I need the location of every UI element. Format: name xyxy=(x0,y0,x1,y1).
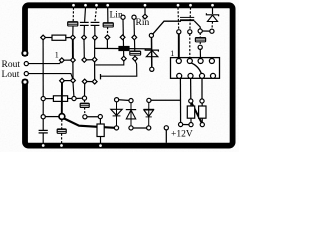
pad node top-left xyxy=(41,35,46,40)
wire D3 top link xyxy=(119,99,129,102)
wire bus to C2 xyxy=(84,8,87,22)
pin U2 top 4 xyxy=(209,59,214,64)
wire node43 to C8 xyxy=(42,119,44,130)
label 1 (IC1 pin1) xyxy=(55,50,59,59)
pad Lout xyxy=(24,72,28,76)
wire D4-D5 bottom link xyxy=(133,127,147,129)
label Lout xyxy=(2,70,20,80)
wire C4 to pad xyxy=(107,27,109,35)
svg-text:Rin: Rin xyxy=(136,18,150,28)
capacitor C9 xyxy=(80,103,89,108)
wire C3 down xyxy=(94,26,96,36)
wire bus drop col B xyxy=(189,8,192,30)
wire J1 to C10 xyxy=(61,120,63,129)
diode D1 zener xyxy=(145,49,158,57)
pin IC1-7 xyxy=(71,78,76,83)
pad on top bus 8 xyxy=(211,3,215,7)
wire U2 pin7 down xyxy=(201,78,203,99)
wire C2 down xyxy=(83,26,85,36)
label Rout xyxy=(2,60,21,70)
capacitor C4 xyxy=(103,23,114,28)
junction node J1 xyxy=(59,114,65,120)
wire Lout xyxy=(29,74,73,79)
pad D4 bottom xyxy=(129,126,133,130)
wire row31 C-D xyxy=(202,30,209,32)
wire C2-pad to IC1 pin3 xyxy=(83,39,85,58)
pad R4 bottom xyxy=(200,123,204,127)
pad D5 bottom xyxy=(147,126,151,130)
pad left-bus-lower-end xyxy=(22,79,27,84)
capacitor C6 horizontal plates xyxy=(180,17,194,20)
svg-text:1: 1 xyxy=(55,50,59,59)
pin IC1-5 xyxy=(92,79,97,84)
resistor R2 xyxy=(53,96,67,102)
wire bus drop diode D2 xyxy=(212,8,214,15)
capacitor C5 under rail xyxy=(130,51,141,55)
pin U2 bottom 4 xyxy=(211,73,216,78)
pad colB xyxy=(188,30,192,34)
pad R3 top xyxy=(189,99,193,103)
wire bus to C1 xyxy=(72,8,74,22)
pad node C4 xyxy=(105,35,110,40)
pad node43 low xyxy=(41,115,45,119)
capacitor C8 xyxy=(39,130,48,133)
wire pad to R5 xyxy=(99,119,101,124)
pad colD xyxy=(210,29,214,33)
wire +12V to bus xyxy=(165,130,167,143)
pad R4 top xyxy=(200,99,204,103)
diode D3 xyxy=(111,102,122,126)
ground bus left gap xyxy=(21,56,29,79)
pad on top bus 4 xyxy=(106,3,110,7)
pad R3 bottom xyxy=(189,123,193,127)
wire C10 to bus xyxy=(61,134,63,144)
wire IC1 row A 1-2 xyxy=(64,59,71,61)
resistor R5 xyxy=(97,124,104,137)
label Rin xyxy=(136,18,150,28)
wire bus to C4 xyxy=(107,8,109,23)
pad colC2 xyxy=(198,45,202,49)
wire across to diode row xyxy=(151,99,181,101)
pin IC1-1 xyxy=(59,58,64,63)
wire U2 pin to bottom pad xyxy=(179,78,181,124)
wire IC1-6 down xyxy=(84,84,86,96)
wire Rin S-bend xyxy=(152,21,181,34)
wire colC pad-cap xyxy=(199,33,201,37)
pad C9 top xyxy=(82,96,86,100)
svg-text:+12V: +12V xyxy=(171,130,193,140)
wire pad to R3 xyxy=(190,103,192,106)
pad on top bus 7 xyxy=(189,3,193,7)
wire bus stub Rin xyxy=(144,8,146,15)
wire C9 to pad xyxy=(84,108,86,115)
pad on bottom bus 1 xyxy=(41,144,45,148)
wire diag pad191-pad202 (thick) xyxy=(192,103,202,123)
capacitor C1 xyxy=(68,22,79,27)
pad node zener-top xyxy=(149,33,153,37)
wire C1 to pad xyxy=(72,26,74,35)
pin U2 bottom 2 xyxy=(188,73,193,78)
pin U2 bottom 3 xyxy=(200,73,205,78)
wire IC1 4-5 vertical xyxy=(94,62,96,80)
wire U2 internal arc xyxy=(190,63,201,75)
pad node C1-R2 xyxy=(70,35,75,40)
wire stub crossing xyxy=(100,74,102,79)
wire D2 to pad xyxy=(211,22,214,30)
wire mid1 elbow left xyxy=(95,61,123,65)
pad colC xyxy=(198,29,202,33)
wire colC to IC2 pin3 xyxy=(199,49,201,58)
pad left-bus-upper-end xyxy=(22,51,27,56)
pad on top bus 2 xyxy=(84,3,88,7)
wire R2-pad xyxy=(68,98,72,100)
wire C3-pad to IC1 pin4 xyxy=(94,40,96,58)
pad R2 right xyxy=(72,96,76,100)
wire pad-R2 xyxy=(45,98,53,100)
op-amp U2 outline xyxy=(171,58,220,79)
wire U2 pin6 down xyxy=(190,78,192,99)
pad node Lin2-mid xyxy=(132,35,137,40)
wire node43 to junction xyxy=(45,116,59,118)
capacitor C2 xyxy=(80,22,89,25)
component L1 (black box on rail) xyxy=(118,46,129,51)
pad Rout xyxy=(24,62,28,66)
wire R3 to pad xyxy=(190,118,192,122)
pin U2 top 2 xyxy=(187,59,192,64)
wire colB to IC2 pin2 xyxy=(189,34,191,59)
svg-text:1: 1 xyxy=(170,49,174,58)
wire col43 lower xyxy=(42,101,44,115)
resistor R3 xyxy=(187,106,194,118)
wire R1 to pad xyxy=(66,37,71,39)
wire pad to IC1 pin (thick) xyxy=(72,39,74,58)
pad node C2 xyxy=(82,35,87,40)
ground bus frame xyxy=(25,5,233,145)
wire IC1 row A 3-4 xyxy=(86,59,92,61)
label +12V xyxy=(171,130,193,140)
pin IC1-4 xyxy=(92,57,97,62)
wire IC1 row B 6-5 xyxy=(87,81,93,83)
pin U2 bottom 1 xyxy=(177,73,182,78)
wire Rout xyxy=(29,62,62,64)
diode D5 xyxy=(144,103,155,126)
pad on bottom bus 3 xyxy=(99,144,103,148)
pad Lin2 xyxy=(132,15,136,19)
wire IC1 row B 8-7 xyxy=(64,80,71,82)
capacitor C10 xyxy=(57,129,66,134)
pad bottom-left-of-R3 xyxy=(179,122,183,126)
pad D3 bottom xyxy=(114,126,118,130)
wire Lin column xyxy=(122,19,125,56)
label Lin xyxy=(110,11,123,21)
pin IC1-3 xyxy=(82,57,87,62)
pin U2 top 1 xyxy=(176,59,181,64)
wire C4-pad to rail xyxy=(106,39,108,48)
diode D2 xyxy=(206,13,218,21)
wire J1 to D3 (thick) xyxy=(64,118,115,128)
wire R4 leg bottom xyxy=(201,118,203,122)
pad on top bus 3 xyxy=(95,3,99,7)
pad zener-bottom xyxy=(150,67,154,71)
pin U2 top 3 xyxy=(198,59,203,64)
wire C8 to bus xyxy=(42,133,44,143)
capacitor C7 xyxy=(195,37,206,42)
resistor R4 xyxy=(199,106,206,118)
pad R2 left xyxy=(41,97,45,101)
wire R5 to bus xyxy=(100,137,102,144)
wire bus to C3 xyxy=(95,8,97,22)
wire IC1-8 down (thick) xyxy=(61,83,63,114)
pad R5 top xyxy=(98,115,102,119)
pad node mid2 xyxy=(133,56,138,61)
pad D5 top xyxy=(147,98,151,102)
wire IC1 2-7 vertical xyxy=(72,62,74,78)
wire IC1-7 down xyxy=(72,83,75,97)
label 1 (IC2 pin1) xyxy=(170,49,174,58)
pad node mid1 xyxy=(121,56,126,61)
pad on top bus 1 xyxy=(72,3,76,7)
pin IC1-8 xyxy=(60,78,65,83)
wire C9 leads top xyxy=(84,100,86,103)
pad on top bus 5 xyxy=(143,3,147,7)
pad on top bus 6 xyxy=(176,3,180,7)
wire mid2 elbow left xyxy=(101,61,137,77)
pad Lin xyxy=(121,15,125,19)
wire pad to R4 xyxy=(201,103,203,106)
wire cap to pad diag xyxy=(194,21,200,29)
pad D3 top xyxy=(115,98,119,102)
wire bus drop col A xyxy=(177,8,180,30)
pad on bottom bus 2 xyxy=(60,144,64,148)
wire col43 xyxy=(42,40,44,97)
diode D4 xyxy=(126,103,136,126)
pad C9 bottom xyxy=(83,115,87,119)
svg-text:Lout: Lout xyxy=(2,70,20,80)
pad node Lin-mid xyxy=(120,35,125,40)
pin IC1-2 xyxy=(71,58,76,63)
wire colA to IC2 pin1 (thick) xyxy=(178,34,180,59)
wire pad to R1 xyxy=(45,37,52,39)
capacitor C3 xyxy=(91,22,100,25)
wire colC cap-pad xyxy=(199,42,201,45)
wire mid rail xyxy=(95,47,152,49)
wire zener column xyxy=(151,38,153,68)
wire Lin2 column xyxy=(133,19,136,56)
wire pad-pad bottom right xyxy=(183,124,189,126)
pad colA xyxy=(177,30,181,34)
wire pad-pad row116 xyxy=(87,116,98,118)
pad Rin xyxy=(143,14,148,19)
pin IC1-6 xyxy=(82,79,87,84)
svg-text:Rout: Rout xyxy=(2,60,21,70)
pad +12V feed xyxy=(164,126,168,130)
pad D4 top xyxy=(129,99,133,103)
pad node C3 xyxy=(93,35,98,40)
wire pad-pad row98 xyxy=(76,97,82,99)
resistor R1 xyxy=(52,35,66,40)
